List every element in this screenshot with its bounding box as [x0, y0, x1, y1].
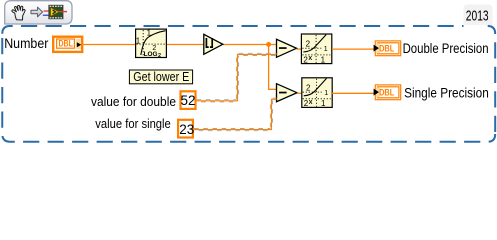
svg-text:2: 2: [306, 40, 311, 49]
svg-text:2: 2: [306, 83, 311, 92]
svg-text:LOG: LOG: [144, 51, 158, 58]
svg-text:2: 2: [158, 53, 161, 59]
svg-text:1: 1: [147, 28, 152, 37]
svg-text:X: X: [309, 100, 313, 106]
svg-text:Number: Number: [4, 36, 49, 51]
svg-text:DBL: DBL: [379, 87, 394, 98]
svg-text:1: 1: [324, 46, 328, 53]
svg-text:Double Precision: Double Precision: [403, 41, 489, 56]
svg-text:Single Precision: Single Precision: [404, 86, 489, 101]
svg-text:1: 1: [321, 55, 326, 64]
svg-text:1: 1: [324, 90, 328, 97]
svg-text:Get lower E: Get lower E: [133, 69, 189, 84]
svg-text:DBL: DBL: [379, 43, 394, 54]
svg-text:52: 52: [180, 93, 195, 108]
svg-text:1: 1: [136, 36, 141, 45]
svg-text:value for double: value for double: [91, 94, 176, 109]
svg-text:value for single: value for single: [95, 116, 171, 131]
svg-text:X: X: [308, 56, 312, 62]
svg-text:1: 1: [321, 99, 326, 108]
svg-text:2013: 2013: [466, 8, 489, 25]
svg-text:DBL: DBL: [59, 38, 74, 49]
svg-text:23: 23: [179, 122, 194, 137]
